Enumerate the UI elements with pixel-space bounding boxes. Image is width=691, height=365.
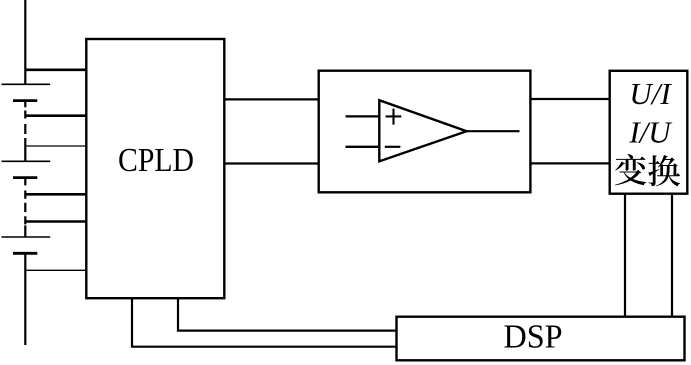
svg-text:DSP: DSP bbox=[504, 318, 563, 355]
svg-text:CPLD: CPLD bbox=[118, 142, 194, 179]
svg-text:I/U: I/U bbox=[628, 114, 673, 149]
svg-text:U/I: U/I bbox=[629, 76, 672, 111]
